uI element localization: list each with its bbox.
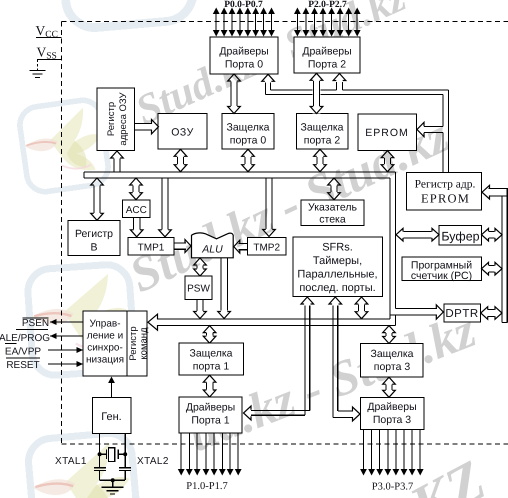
arrow ОЗУ - bus A [176,157,178,164]
svg-text:TMP1: TMP1 [138,243,165,254]
svg-text:PSEN: PSEN [22,318,49,329]
arrow ALU to bus B [220,258,222,311]
main internal bus A [84,171,395,173]
box Драйверы Порта 2 [294,37,360,73]
decorative logo bottom-left [27,431,140,498]
crystal body [109,448,115,462]
svg-text:синхро-: синхро- [87,343,123,354]
svg-text:Защелка: Защелка [371,348,414,360]
wire XTAL1 line [99,433,101,467]
svg-text:SFRs.: SFRs. [322,242,353,254]
label RESET overline [6,357,40,359]
box Указатель стека [301,200,364,226]
arrow Буфер - right bus [489,231,495,233]
svg-text:Буфер: Буфер [441,230,479,244]
label PSEN [23,317,49,319]
arrow DPTR - right bus [488,309,494,311]
arrow bus A - Регистр B [93,186,95,213]
box ALU [192,233,234,258]
svg-text:стека: стека [319,214,346,226]
svg-text:порта 2: порта 2 [304,135,341,147]
svg-text:P3.0-P3.7: P3.0-P3.7 [372,482,413,493]
port P3 pin arrows [363,430,365,470]
arrow Защелка порта 1 - Драйверы Порта 1 [205,383,207,390]
svg-text:RESET: RESET [6,360,39,371]
svg-text:TMP2: TMP2 [253,243,280,254]
svg-text:порта 0: порта 0 [230,135,267,147]
svg-text:счетчик (РС): счетчик (РС) [411,270,472,282]
arrow bus A vertical - Буфер [404,231,432,233]
Vss wire [37,59,62,61]
svg-text:Порта 2: Порта 2 [308,59,346,71]
address bus EPROM-addr-register to port drivers and EPROM [265,83,267,95]
svg-text:Порта 1: Порта 1 [191,415,229,427]
box Регистр B [68,221,120,256]
svg-text:Порта 3: Порта 3 [373,414,411,426]
ground symbol top-left [30,70,46,72]
svg-text:EA/VPP: EA/VPP [5,347,41,358]
arrow bus A to Регистр адреса ОЗУ [113,159,115,173]
svg-text:Регистр: Регистр [128,326,139,360]
svg-text:Указатель: Указатель [308,202,357,214]
svg-text:Защелка: Защелка [301,122,344,134]
arrow Драйверы Порта 2 - Защелка порта 2 [313,73,321,113]
ground symbol bottom [102,486,124,488]
svg-text:Защелка: Защелка [190,348,233,360]
arrow Защелка порта 3 - Драйверы Порта 3 [385,385,387,390]
arrow bus B - Защелка порта 1 [205,333,207,336]
path SFRs - Драйверы Порта 1 [304,306,306,416]
svg-text:Защелка: Защелка [227,122,270,134]
svg-text:P1.0-P1.7: P1.0-P1.7 [186,481,227,492]
svg-text:Управ-: Управ- [89,319,120,330]
decorative logo upper-left [18,98,111,194]
chip boundary dashed left [61,22,63,445]
wire XTAL2 line [124,433,126,467]
arrow TMP2 to ALU [239,243,248,245]
port P1 pin arrows [180,433,182,469]
box Драйверы Порта 0 [210,37,278,74]
box Защелка порта 3 [361,344,423,378]
svg-text:Драйверы: Драйверы [186,402,235,414]
svg-text:XTAL1: XTAL1 [55,456,87,467]
svg-text:ление и: ление и [87,331,123,342]
svg-text:P2.0-P2.7: P2.0-P2.7 [308,0,347,10]
svg-text:адреса ОЗУ: адреса ОЗУ [118,91,129,145]
arrow bus A - Указатель стека [330,186,332,193]
arrow TMP1 to ALU [174,242,186,244]
arrow bus A to TMP1 [161,178,163,229]
capacitor C2 [119,467,131,469]
label EA/VPP overline [5,342,17,344]
crystal stubs [100,453,106,455]
arrow ALU - PSW [196,266,198,269]
box DPTR [444,304,481,322]
svg-text:PSW: PSW [187,284,210,295]
box PSW [185,276,212,300]
svg-text:Драйверы: Драйверы [219,46,268,58]
svg-text:ALU: ALU [201,244,223,256]
svg-text:ОЗУ: ОЗУ [171,127,194,139]
svg-text:P0.0-P0.7: P0.0-P0.7 [224,0,263,10]
arrow EPROM - bus A [383,158,385,164]
box ACC [123,200,150,218]
decorative logo top [57,0,196,30]
arrow PSW to bus B [196,300,198,311]
svg-text:EPROM: EPROM [365,127,409,139]
svg-text:В: В [90,242,97,254]
arrow Ген to control box [111,383,113,398]
svg-text:Регистр адр.: Регистр адр. [415,179,476,191]
svg-text:Параллельные,: Параллельные, [297,269,377,281]
svg-text:порта 1: порта 1 [193,361,230,373]
box EPROM [358,114,417,151]
svg-text:ACC: ACC [126,205,147,216]
svg-text:ALE/PROG: ALE/PROG [0,333,50,344]
Vss ground stem [37,60,39,71]
divider Регистр команд [126,311,128,376]
arrow Драйверы Порта 0 - Защелка порта 0 [230,82,232,107]
junction dot ground [111,478,115,482]
junction dot XTAL1 [98,452,102,456]
bus B to instruction register [157,318,390,320]
arrow Программный счетчик - right bus [489,265,495,267]
wire PSEN [50,321,83,323]
box Драйверы Порта 1 [179,397,242,433]
box SFRs [293,237,383,297]
crystal plates [106,450,108,460]
wire ALE/PROG [50,335,83,337]
box Ген. [93,398,131,434]
capacitor C1 [94,467,106,469]
arrow bus A to TMP2 [265,178,267,229]
svg-text:Драйверы: Драйверы [367,401,416,413]
svg-text:XTAL2: XTAL2 [137,456,169,467]
chip boundary dashed bottom [62,443,508,445]
chip boundary dashed top [62,21,508,23]
text Регистр команд [128,326,139,360]
arrow SFRs - bus B [357,305,359,312]
box Защелка порта 1 [179,343,244,375]
box Защелка порта 2 [297,114,349,150]
arrow Защелка порта 0 - bus A [244,157,246,164]
svg-text:команд: команд [139,327,150,360]
svg-text:Таймеры,: Таймеры, [313,255,362,267]
right address/data bus [489,188,508,190]
box Регистр адреса ОЗУ [97,88,135,151]
wire caps to ground [99,470,101,480]
svg-text:EPROM: EPROM [421,192,470,206]
svg-text:порта 3: порта 3 [374,361,411,373]
text Регистр адреса ОЗУ [106,102,117,136]
arrow RAM address register to ОЗУ [135,122,152,124]
svg-text:Регистр: Регистр [106,102,117,136]
arrow bus B - Защелка порта 3 [385,333,387,336]
arrow bus A - ACC [132,186,134,193]
port P2 pin arrows [296,13,298,32]
svg-text:Порта 0: Порта 0 [225,59,263,71]
box TMP2 [248,238,287,255]
box Регистр адр. EPROM [406,173,481,211]
box Буфер [439,226,482,246]
junction dot XTAL2 [123,452,127,456]
box ОЗУ [158,114,207,150]
arrow Защелка порта 2 - bus A [316,157,318,164]
svg-text:Регистр: Регистр [75,228,113,240]
box Защелка порта 0 [222,114,274,150]
path SFRs - Драйверы Порта 3 [332,306,334,418]
svg-text:послед. порты.: послед. порты. [299,282,375,294]
Vcc wire [36,37,62,39]
svg-text:Драйверы: Драйверы [302,46,351,58]
svg-text:DPTR: DPTR [445,308,478,320]
box Управление и синхронизация + Регистр команд [83,311,147,376]
wire RESET [48,363,83,365]
box Программный счетчик [402,257,482,281]
svg-text:низация: низация [86,355,124,366]
arrow ACC to TMP1 [133,218,135,230]
box Драйверы Порта 3 [361,397,424,429]
decorative logo middle-left [26,263,135,377]
wire EA/VPP [48,349,83,351]
svg-text:Ген.: Ген. [101,411,121,423]
box TMP1 [128,238,174,255]
bus branch to DPTR [395,308,437,310]
ground stem bottom [112,480,114,487]
port P0 pin arrows [215,13,217,32]
